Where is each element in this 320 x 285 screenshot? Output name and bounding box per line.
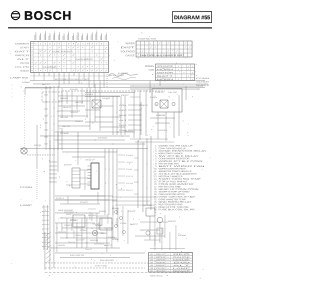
svg-text:DOME FLASHER: DOME FLASHER <box>53 50 74 53</box>
svg-text:STOP LP: STOP LP <box>126 175 134 178</box>
svg-text:DIMMER: DIMMER <box>60 97 69 100</box>
svg-text:FLASHER: FLASHER <box>88 214 96 217</box>
svg-text:BRAKE: BRAKE <box>156 264 166 267</box>
svg-text:W6: W6 <box>150 267 153 270</box>
svg-text:18.: 18. <box>154 188 157 191</box>
svg-text:x: x <box>168 260 169 262</box>
svg-text:FUSE BLK: FUSE BLK <box>158 129 168 132</box>
svg-text:START: START <box>80 201 89 204</box>
svg-text:2: 2 <box>40 42 42 45</box>
svg-text:IGN SW: IGN SW <box>126 182 133 185</box>
svg-text:DIAGRAM #55: DIAGRAM #55 <box>174 15 210 21</box>
svg-text:DOME: DOME <box>60 132 70 135</box>
svg-text:REG: REG <box>119 109 128 112</box>
svg-text:16.: 16. <box>154 183 157 186</box>
svg-text:ALT: ALT <box>17 58 31 61</box>
svg-text:25.: 25. <box>154 206 157 209</box>
svg-text:3.: 3. <box>155 150 157 153</box>
svg-text:WIPER: WIPER <box>156 256 166 259</box>
svg-text:SOLENOID: SOLENOID <box>157 65 174 68</box>
svg-text:STOP LP: STOP LP <box>155 91 165 94</box>
svg-text:24.: 24. <box>154 203 157 206</box>
svg-text:HEATER FUSE BLK: HEATER FUSE BLK <box>150 275 162 278</box>
svg-text:TAIL LP: TAIL LP <box>68 241 76 244</box>
svg-text:LAMP SW: LAMP SW <box>10 76 30 79</box>
svg-text:x: x <box>168 257 169 259</box>
svg-text:HEATER: HEATER <box>58 244 66 247</box>
svg-text:FUEL PMP: FUEL PMP <box>168 91 178 94</box>
svg-text:DOME: DOME <box>173 259 192 262</box>
svg-text:SENDER: SENDER <box>99 210 107 213</box>
svg-text:x: x <box>168 268 169 270</box>
svg-text:SOLENOID: SOLENOID <box>98 136 107 139</box>
svg-text:PARK LP: PARK LP <box>75 120 84 123</box>
svg-text:8: 8 <box>68 42 70 45</box>
svg-text:CONN RESISTOR MOTOR: CONN RESISTOR MOTOR <box>158 193 185 196</box>
svg-text:BATT: BATT <box>42 83 51 86</box>
svg-text:SOLENOID: SOLENOID <box>121 50 135 53</box>
svg-text:MOTOR: MOTOR <box>157 71 174 74</box>
svg-text:DOME: DOME <box>143 204 153 207</box>
svg-text:LAMP: LAMP <box>20 204 33 207</box>
svg-text:22.: 22. <box>154 198 157 201</box>
svg-text:FUEL PMP SW: FUEL PMP SW <box>70 254 84 257</box>
svg-text:2.: 2. <box>155 147 157 150</box>
svg-text:COM: COM <box>149 69 154 72</box>
svg-text:BATT: BATT <box>15 50 31 53</box>
svg-text:4: 4 <box>92 42 94 45</box>
svg-text:4: 4 <box>49 42 51 45</box>
svg-text:TURN SIG: TURN SIG <box>70 111 78 114</box>
svg-text:26.: 26. <box>154 208 157 211</box>
svg-text:START: START <box>64 224 73 227</box>
svg-text:BOSCH: BOSCH <box>24 9 72 23</box>
svg-text:CONN: CONN <box>196 77 210 80</box>
svg-text:7: 7 <box>106 42 108 45</box>
svg-text:6: 6 <box>59 42 61 45</box>
svg-text:LAMP: LAMP <box>173 267 192 270</box>
svg-text:FAN: FAN <box>126 154 134 157</box>
svg-text:GAUGE: GAUGE <box>70 88 79 91</box>
svg-text:11.: 11. <box>154 170 157 173</box>
svg-text:FLASHER: FLASHER <box>102 97 111 100</box>
svg-text:1: 1 <box>35 42 37 45</box>
svg-text:9.: 9. <box>155 165 157 168</box>
svg-text:W2: W2 <box>150 256 153 259</box>
svg-text:20.: 20. <box>154 193 157 196</box>
svg-text:TEMP MOTOR: TEMP MOTOR <box>138 38 157 41</box>
svg-text:REG: REG <box>168 220 177 223</box>
svg-text:x: x <box>168 265 169 267</box>
svg-text:6: 6 <box>101 42 103 45</box>
svg-text:CONN: CONN <box>20 186 33 189</box>
svg-text:SPARES: SPARES <box>145 65 155 68</box>
svg-text:1.: 1. <box>155 145 157 148</box>
svg-text:STOP LP: STOP LP <box>139 104 149 107</box>
svg-text:x: x <box>168 262 169 264</box>
svg-text:REG: REG <box>173 253 192 256</box>
svg-text:FUSE BLK COIL OIL PR: FUSE BLK COIL OIL PR <box>158 208 195 211</box>
svg-text:DIMMER: DIMMER <box>15 42 30 45</box>
svg-text:3: 3 <box>45 42 47 45</box>
svg-text:RESISTOR: RESISTOR <box>34 144 41 147</box>
svg-text:START: START <box>20 46 30 49</box>
svg-text:x: x <box>168 271 169 273</box>
svg-text:BRAKE: BRAKE <box>119 114 128 117</box>
svg-text:REG REG: REG REG <box>43 66 58 69</box>
svg-text:W4: W4 <box>150 261 153 264</box>
svg-text:12.: 12. <box>154 173 157 176</box>
svg-text:IGN SW COIL GND: IGN SW COIL GND <box>158 185 181 188</box>
svg-text:COIL: COIL <box>70 219 77 222</box>
svg-text:BATT: BATT <box>157 75 175 78</box>
svg-text:GAUGE: GAUGE <box>126 54 136 57</box>
svg-text:SOLENOID: SOLENOID <box>196 81 210 84</box>
svg-text:SOLENOID: SOLENOID <box>156 267 166 270</box>
svg-text:2: 2 <box>82 42 84 45</box>
svg-text:WIPER: WIPER <box>125 130 134 133</box>
svg-text:BRAKE: BRAKE <box>112 207 120 210</box>
svg-text:AMMETER: AMMETER <box>75 101 84 104</box>
svg-text:13.: 13. <box>154 175 157 178</box>
svg-text:DIST: DIST <box>128 210 137 213</box>
svg-text:HORN: HORN <box>156 261 166 264</box>
svg-text:HORN: HORN <box>156 114 166 117</box>
svg-text:7: 7 <box>63 42 65 45</box>
svg-text:14.: 14. <box>154 178 157 181</box>
svg-text:W1: W1 <box>150 253 153 256</box>
svg-text:7.: 7. <box>155 160 157 163</box>
svg-text:BATT: BATT <box>104 244 113 247</box>
svg-text:FUEL PMP: FUEL PMP <box>60 116 69 119</box>
svg-text:IGN SW: IGN SW <box>20 62 30 65</box>
svg-text:23.: 23. <box>154 201 157 204</box>
svg-text:DIMMER: DIMMER <box>196 84 210 87</box>
svg-text:10.: 10. <box>154 167 157 170</box>
svg-text:x: x <box>168 254 169 256</box>
svg-text:5.: 5. <box>155 155 157 158</box>
svg-text:TAIL LP: TAIL LP <box>85 248 93 251</box>
svg-text:5: 5 <box>96 42 98 45</box>
svg-text:GAUGE: GAUGE <box>173 256 192 259</box>
svg-text:FUSE BLK: FUSE BLK <box>75 234 83 237</box>
svg-text:COIL: COIL <box>126 168 133 171</box>
svg-text:CONN: CONN <box>80 229 88 232</box>
svg-text:STOP LP FUEL PMP ALT: STOP LP FUEL PMP ALT <box>158 180 188 183</box>
svg-text:W3: W3 <box>150 258 153 261</box>
svg-text:5: 5 <box>54 42 56 45</box>
svg-text:SENDER: SENDER <box>20 70 29 73</box>
svg-text:HEAD LP: HEAD LP <box>85 158 95 161</box>
svg-text:W7: W7 <box>150 270 153 273</box>
svg-text:4.: 4. <box>155 152 157 155</box>
svg-text:- 1 -: - 1 - <box>199 277 203 280</box>
svg-text:DIST: DIST <box>64 163 73 166</box>
svg-text:FAN FUSE BLK DIMMER DIST: FAN FUSE BLK DIMMER DIST <box>140 54 185 57</box>
svg-text:DOME: DOME <box>22 81 31 84</box>
svg-text:WIPER: WIPER <box>126 42 135 45</box>
svg-text:SW: SW <box>178 234 187 237</box>
svg-text:HEAD LP: HEAD LP <box>63 106 72 109</box>
svg-text:HORN: HORN <box>157 68 174 71</box>
svg-text:CONN HORN RESISTOR: CONN HORN RESISTOR <box>158 157 190 160</box>
svg-text:AMMETER START HEAD LP: AMMETER START HEAD LP <box>158 170 192 173</box>
svg-text:BATT: BATT <box>130 223 139 226</box>
svg-text:GAUGE MOTOR: GAUGE MOTOR <box>76 58 93 61</box>
svg-text:STOP LP: STOP LP <box>56 197 65 200</box>
svg-text:STOP LP GND: STOP LP GND <box>95 264 107 267</box>
svg-text:FAN HEATER: FAN HEATER <box>100 259 115 262</box>
svg-text:17.: 17. <box>154 185 157 188</box>
svg-text:8.: 8. <box>155 162 157 165</box>
svg-text:SW: SW <box>173 261 191 264</box>
svg-text:HEAD LP COIL TURN SIG: HEAD LP COIL TURN SIG <box>158 206 188 209</box>
svg-text:HEATER: HEATER <box>156 270 166 273</box>
svg-text:HORN: HORN <box>90 239 99 242</box>
svg-text:FAN: FAN <box>85 93 94 96</box>
svg-text:15.: 15. <box>154 180 157 183</box>
svg-text:9: 9 <box>73 42 75 45</box>
svg-text:HORN SOLENOID: HORN SOLENOID <box>58 209 73 212</box>
svg-text:TURN SIG: TURN SIG <box>100 232 107 235</box>
svg-text:COIL: COIL <box>119 104 127 107</box>
svg-text:DIST: DIST <box>121 94 131 97</box>
svg-text:6.: 6. <box>155 157 157 160</box>
svg-text:PARK LP: PARK LP <box>156 253 166 256</box>
svg-text:DIST: DIST <box>126 189 135 192</box>
svg-text:DIST: DIST <box>121 46 137 49</box>
svg-text:COIL: COIL <box>120 222 127 225</box>
svg-text:WIPER: WIPER <box>156 258 166 261</box>
svg-text:DIST: DIST <box>119 124 129 127</box>
svg-text:19.: 19. <box>154 190 157 193</box>
svg-text:START: START <box>108 236 116 239</box>
svg-text:W5: W5 <box>150 264 153 267</box>
svg-text:FAN: FAN <box>150 96 158 99</box>
svg-text:OIL PR: OIL PR <box>62 125 71 128</box>
svg-text:SW JCT BLK RELAY: SW JCT BLK RELAY <box>158 155 199 158</box>
svg-text:ALT: ALT <box>119 119 129 122</box>
svg-text:WIPER: WIPER <box>15 54 30 57</box>
svg-text:WIPER MOTOR REG: WIPER MOTOR REG <box>158 167 186 170</box>
svg-text:MOTOR MOTOR PARK LP DIST: MOTOR MOTOR PARK LP DIST <box>55 78 90 81</box>
